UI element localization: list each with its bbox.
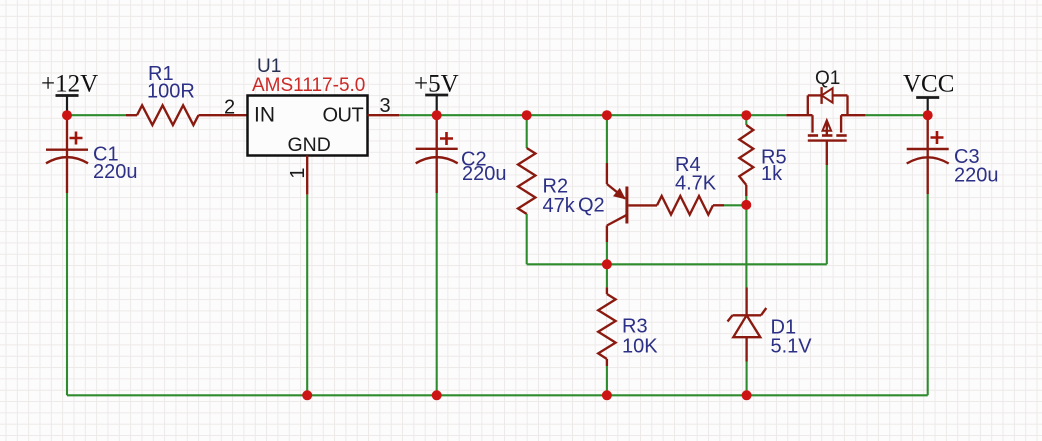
svg-text:AMS1117-5.0: AMS1117-5.0 (252, 75, 365, 96)
junction node R2 top (522, 110, 532, 120)
label D1 5.1V (771, 317, 813, 358)
junction node Q2 collector / R3 (602, 259, 612, 269)
power symbol +12V (41, 71, 98, 116)
wire R2 bottom lead (526, 214, 528, 264)
svg-text:+5V: +5V (414, 71, 459, 98)
junction node +5V (432, 110, 442, 120)
junction node R3 bottom (602, 390, 612, 400)
junction node +12V (62, 110, 72, 120)
svg-text:IN: IN (254, 104, 275, 127)
junction node C2 bottom (432, 390, 442, 400)
label C2 220u (461, 149, 507, 186)
resistor R3 (598, 287, 615, 366)
label R3 10K (622, 316, 658, 358)
svg-text:5.1V: 5.1V (771, 336, 813, 358)
power symbol +5V (414, 71, 459, 116)
svg-text:220u: 220u (954, 165, 999, 187)
svg-text:R3: R3 (622, 316, 648, 338)
wire top rail from +12V node to R1 (67, 114, 126, 116)
transistor Q2 (607, 163, 657, 242)
wire C1 to bottom rail (66, 193, 68, 395)
wire bottom ground rail (67, 394, 928, 396)
junction node Q2 emitter rail (602, 110, 612, 120)
wire mid rail (527, 263, 827, 265)
label R4 4.7K (675, 154, 717, 195)
power symbol VCC (903, 71, 954, 116)
pin 1 GND pin of U1 (306, 156, 308, 195)
wire Q1 gate down to mid rail (826, 165, 828, 264)
svg-text:100R: 100R (147, 81, 195, 103)
zener diode D1 (728, 288, 767, 362)
svg-text:Q1: Q1 (815, 68, 840, 89)
wire C3 to bottom rail (927, 194, 929, 395)
wire R4/R5 node down to D1 crossing mid rail (745, 205, 747, 288)
svg-text:+12V: +12V (41, 71, 98, 98)
svg-text:U1: U1 (257, 56, 281, 77)
junction node GND pin bottom (302, 390, 312, 400)
svg-text:1k: 1k (761, 163, 783, 185)
wire R5 top lead (745, 115, 747, 125)
resistor R2 (518, 148, 535, 214)
label R1 value 100R (147, 63, 195, 103)
svg-text:3: 3 (380, 95, 391, 117)
svg-text:1: 1 (287, 167, 309, 178)
wire R5 bottom lead (745, 196, 747, 205)
svg-text:4.7K: 4.7K (675, 173, 717, 195)
resistor R1 (126, 105, 248, 125)
svg-text:VCC: VCC (903, 71, 954, 98)
label R2 47k (543, 176, 576, 218)
svg-text:47k: 47k (543, 195, 576, 217)
wire D1 to bottom rail (746, 362, 748, 396)
wire Q2 emitter riser (606, 115, 608, 163)
wire R2 top lead (526, 115, 528, 148)
junction node R4/R5/D1 (741, 200, 751, 210)
label C1 220u (93, 144, 138, 184)
transistor Q1 P-MOSFET (786, 87, 865, 165)
svg-text:GND: GND (288, 134, 331, 156)
label R5 1k (761, 147, 787, 186)
svg-text:220u: 220u (93, 161, 138, 183)
wire R4 right lead (724, 204, 746, 206)
svg-text:Q2: Q2 (578, 195, 605, 217)
capacitor C1 (46, 115, 88, 193)
wire OUT to +5V and across top rail (399, 114, 786, 116)
junction node R5 top (741, 110, 751, 120)
junction node D1 bottom (742, 390, 752, 400)
wire Q2 collector to mid rail (606, 242, 608, 264)
svg-text:10K: 10K (622, 336, 658, 358)
Q2 emitter arrow (613, 188, 626, 200)
wire R3 to bottom rail (606, 366, 608, 395)
wire R3 top lead (606, 264, 608, 287)
label C3 220u (954, 146, 999, 187)
capacitor C2 (416, 115, 458, 193)
pin 3 of U1 (368, 114, 400, 116)
junction node VCC (923, 110, 933, 120)
resistor R5 (739, 125, 753, 196)
wire C2 to bottom rail (436, 193, 438, 395)
capacitor C3 (907, 115, 949, 194)
svg-text:220u: 220u (462, 163, 507, 185)
wire Q1 drain to VCC node (865, 114, 927, 116)
svg-text:OUT: OUT (323, 105, 364, 127)
op-amp U1 box AMS1117-5.0 (248, 96, 368, 157)
resistor R4 (657, 196, 724, 215)
wire GND pin to bottom rail (306, 195, 308, 396)
svg-text:2: 2 (224, 97, 235, 119)
